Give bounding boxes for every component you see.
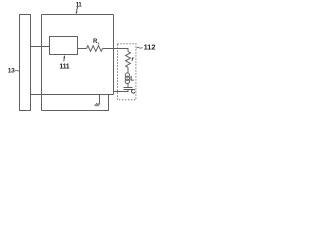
wire (bottom wire from plate 13 to right vertical) bbox=[31, 94, 114, 96]
leader line for label 13 bbox=[15, 69, 19, 72]
svg-text:C: C bbox=[131, 89, 136, 96]
wire (resistor R to right vertical and into dashed box) bbox=[103, 49, 129, 52]
arrow for label 11 bbox=[77, 7, 78, 11]
svg-text:r: r bbox=[132, 57, 135, 63]
inductor L coil loops bbox=[125, 73, 129, 77]
wire (box 111 to resistor R) bbox=[78, 48, 87, 50]
wire (r to inductor L) bbox=[127, 68, 129, 73]
arrow for label 111 bbox=[63, 58, 66, 62]
capacitor C top plate bbox=[124, 87, 133, 89]
resistor R zigzag bbox=[87, 46, 103, 52]
box U111 (component 111) bbox=[50, 37, 78, 55]
resistor r zigzag (vertical, inside dashed box) bbox=[126, 52, 131, 68]
wire (top wire from loop corner to right vertical) bbox=[42, 14, 114, 16]
wire (inductor L to capacitor C) bbox=[127, 84, 129, 88]
wire (left vertical of main loop / left edge of lower box) bbox=[41, 15, 43, 111]
svg-text:111: 111 bbox=[59, 63, 69, 70]
svg-text:13: 13 bbox=[8, 68, 15, 75]
leader line for label 112 bbox=[137, 47, 143, 48]
capacitor C bottom plate bbox=[124, 89, 133, 91]
wire (capacitor C down and left back to right vertical) bbox=[114, 90, 129, 92]
svg-text:R: R bbox=[93, 39, 98, 45]
ground stem bbox=[99, 95, 101, 104]
wire (right vertical of main loop) bbox=[113, 15, 115, 95]
dashed box 112 bbox=[118, 44, 136, 100]
ground hatch strokes bbox=[95, 103, 101, 106]
electrode plate 13 bbox=[20, 15, 31, 111]
svg-text:11: 11 bbox=[76, 2, 83, 8]
lower electrode box (right edge and bottom edge) bbox=[42, 95, 109, 111]
wire (stub from plate 13 to box 111) bbox=[31, 46, 50, 48]
svg-text:L: L bbox=[130, 76, 134, 82]
svg-text:112: 112 bbox=[144, 43, 156, 52]
leader tick for label R bbox=[98, 43, 99, 45]
